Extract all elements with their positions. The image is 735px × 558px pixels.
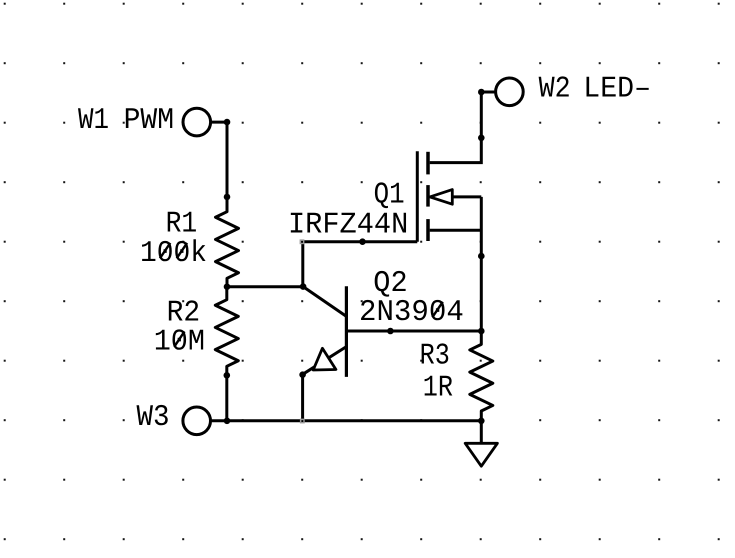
junction source vertical [478, 253, 485, 260]
svg-text:10M: 10M [154, 325, 205, 359]
wire rail to ground [480, 421, 483, 444]
wire Q2 emitter to rail [301, 375, 304, 421]
label Q1 [374, 178, 405, 212]
label W3 [137, 401, 170, 435]
marker gate wire corner [300, 239, 305, 244]
resistor R3 [470, 331, 493, 421]
connector W3 [183, 407, 211, 435]
transistor Q1 [417, 151, 428, 241]
junction at W2 corner [478, 89, 485, 96]
wire bottom rail [227, 419, 481, 422]
wire Q1 source [430, 229, 482, 232]
ground [465, 443, 497, 466]
junction Q2 collector [300, 283, 307, 290]
value 1R [423, 371, 453, 405]
svg-text:IRFZ44N: IRFZ44N [288, 208, 408, 242]
junction rail at R2 [224, 418, 231, 425]
wire R2 to bottom rail [225, 375, 228, 421]
svg-text:PWM: PWM [124, 104, 174, 138]
wire W3 to rail [211, 419, 228, 422]
wire Q1 drain [430, 92, 482, 163]
label W2 LED- [539, 73, 651, 107]
value 100k [140, 237, 207, 271]
junction rail at R3 [478, 418, 485, 425]
svg-text:2N3904: 2N3904 [359, 296, 464, 330]
wire Q2 base to R3 node [346, 330, 481, 333]
junction at W1 corner [224, 119, 231, 126]
junction drain wire [478, 135, 485, 142]
svg-text:Q1: Q1 [374, 178, 405, 212]
arrow Q1 bulk [430, 190, 452, 205]
resistor R2 [215, 287, 238, 375]
svg-text:100k: 100k [140, 237, 207, 271]
svg-text:W3: W3 [137, 401, 170, 435]
transistor Q2 collector vertical wire [301, 242, 304, 287]
wire source node vertical [480, 197, 483, 331]
label R1 [166, 207, 198, 241]
value 10M [154, 325, 205, 359]
junction above R1 [224, 194, 231, 201]
label R3 [420, 340, 450, 374]
junction Q2 emitter [299, 371, 306, 378]
wire Q1 bulk [452, 195, 481, 198]
label Q2 [373, 267, 407, 301]
marker emitter rail junction [300, 419, 305, 424]
svg-text:W2: W2 [539, 73, 571, 107]
svg-text:LED–: LED– [583, 73, 651, 107]
wire Q1 gate [303, 240, 418, 243]
resistor R1 [216, 197, 239, 287]
label W1 PWM [78, 104, 174, 138]
transistor Q2 [303, 286, 347, 377]
connector W1 [183, 108, 211, 136]
junction Q2 base pin [387, 328, 394, 335]
junction below R2 [224, 372, 231, 379]
wire to W2 [481, 91, 494, 94]
wire W1 to corner [211, 121, 227, 124]
junction R1/R2 node [224, 283, 231, 290]
value IRFZ44N [288, 208, 408, 242]
svg-text:R3: R3 [420, 340, 450, 374]
junction R3 top node [478, 328, 485, 335]
wire R1/R2 node to Q2 collector [227, 285, 303, 288]
svg-text:W1: W1 [78, 104, 109, 138]
svg-text:1R: 1R [423, 371, 453, 405]
connector W2 [496, 78, 524, 106]
junction Q1 gate pin [359, 238, 366, 245]
value 2N3904 [359, 296, 464, 330]
label R2 [167, 296, 201, 330]
wire corner down to R1 [226, 122, 229, 197]
